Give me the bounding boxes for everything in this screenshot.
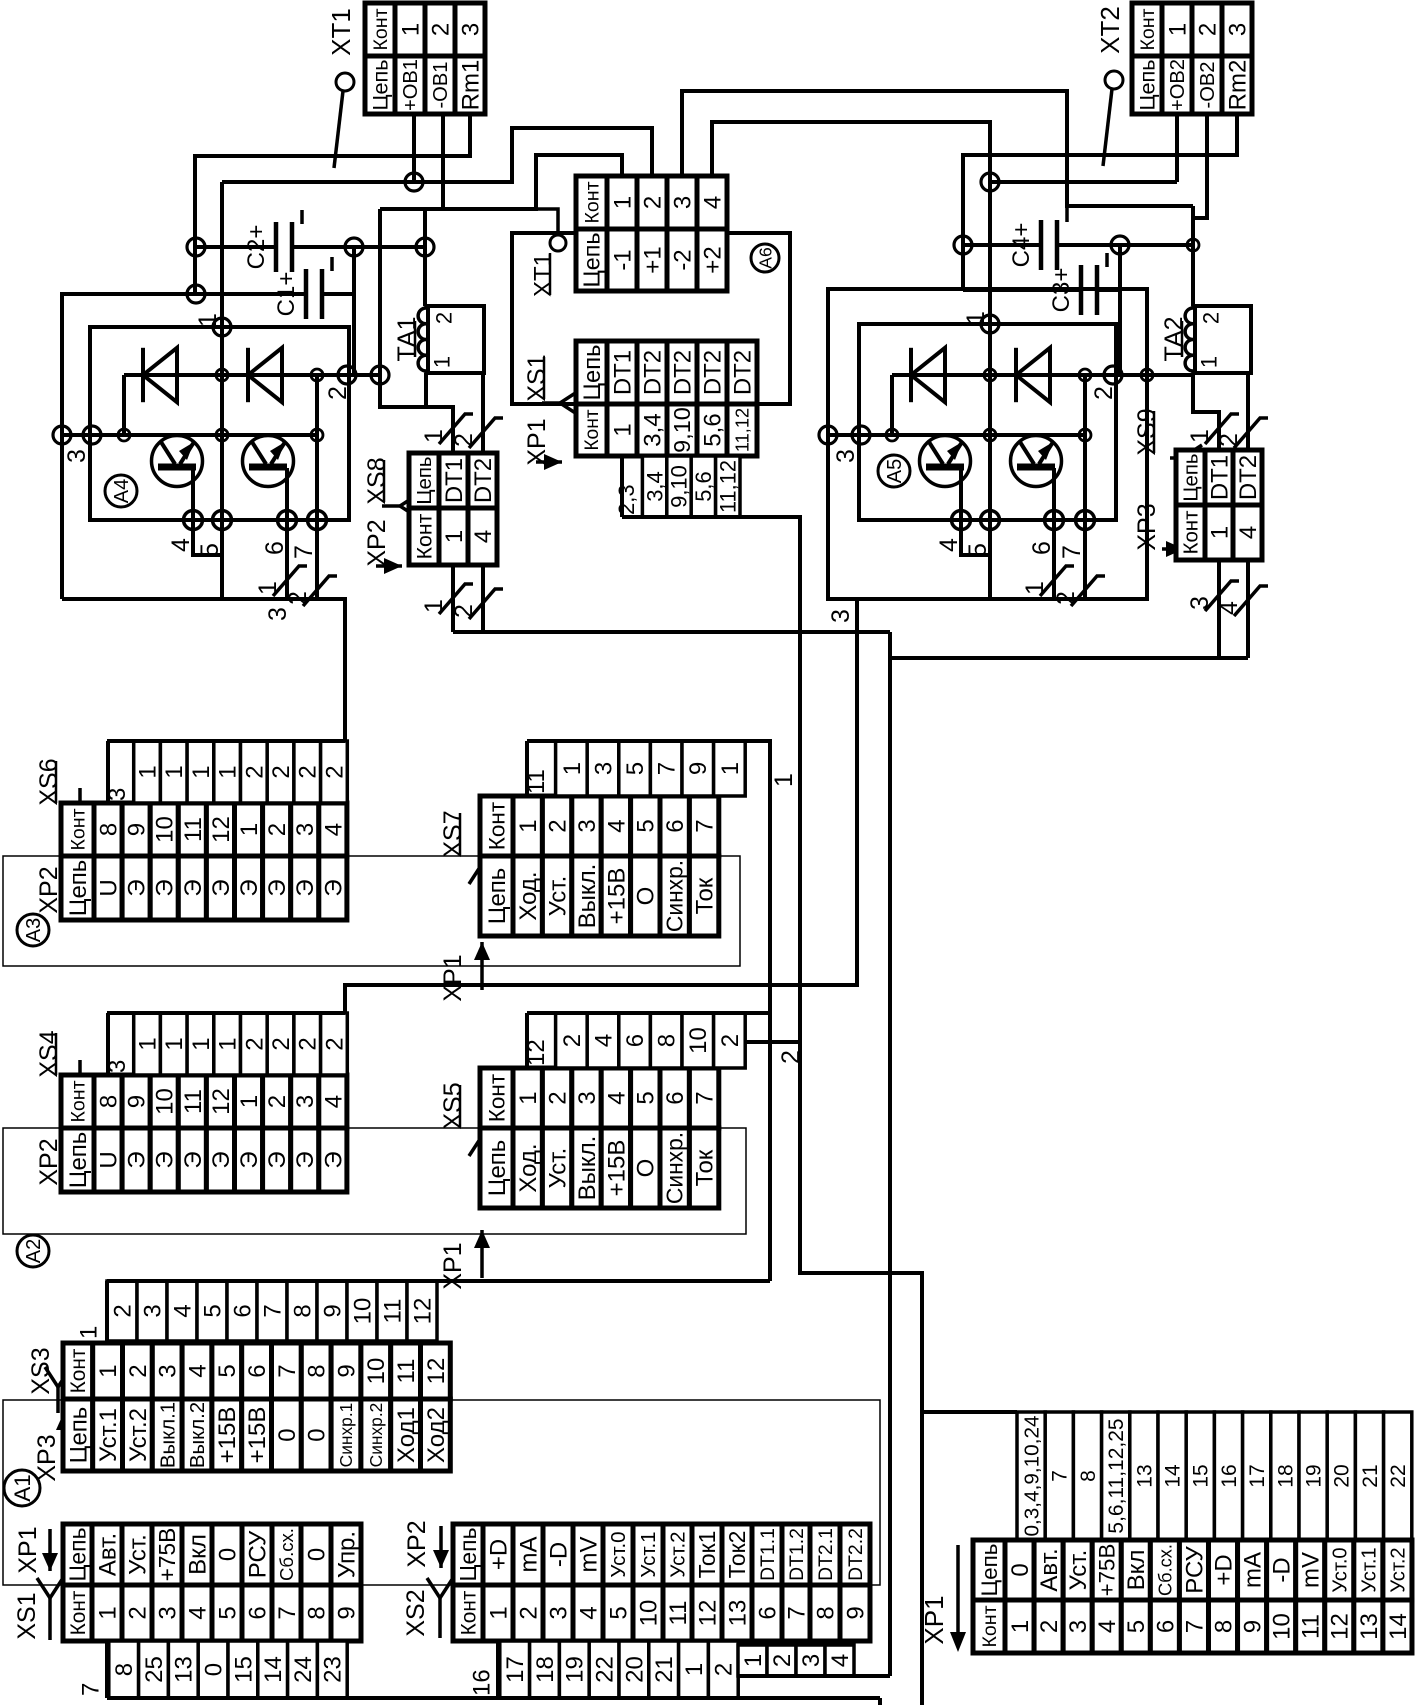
svg-text:ХТ1: ХТ1 — [529, 253, 556, 297]
wire XS4 pin8 stub — [106, 1013, 110, 1075]
junction C1 plus rail — [187, 285, 205, 303]
pin 7 of A4 — [308, 511, 327, 530]
svg-text:4: 4 — [699, 196, 726, 209]
wire XS2 pin1 stub — [496, 1641, 500, 1698]
svg-text:1: 1 — [236, 1095, 263, 1108]
svg-text:3: 3 — [63, 449, 91, 463]
junction A5 pin1 — [981, 315, 999, 333]
svg-text:Э: Э — [152, 879, 179, 896]
transistor VT2 of A4 — [243, 436, 294, 487]
junction A5 diode rail right — [1079, 369, 1091, 381]
svg-text:Синхр.1: Синхр.1 — [336, 1403, 356, 1468]
svg-text:+15В: +15В — [603, 868, 630, 925]
svg-text:11: 11 — [665, 1601, 692, 1626]
svg-text:1: 1 — [95, 1364, 122, 1377]
pin 4 of A4 — [184, 511, 203, 530]
svg-text:3: 3 — [1186, 596, 1214, 610]
connector label XS8 — [363, 457, 391, 504]
svg-text:РСУ: РСУ — [1181, 1545, 1208, 1593]
svg-text:6: 6 — [754, 1606, 781, 1619]
svg-text:1: 1 — [681, 1663, 708, 1676]
trunk label 1 — [770, 773, 798, 787]
svg-text:9: 9 — [1240, 1620, 1267, 1633]
wire A4 pin7 branch — [315, 375, 319, 520]
svg-text:Вкл: Вкл — [184, 1534, 211, 1575]
svg-text:Конт: Конт — [67, 1080, 89, 1122]
svg-text:Э: Э — [292, 1151, 319, 1168]
svg-text:5,6,11,12,25: 5,6,11,12,25 — [1105, 1418, 1128, 1533]
pin label 7 of A4 — [290, 545, 318, 559]
svg-text:Э: Э — [264, 879, 291, 896]
svg-text:1: 1 — [188, 1037, 215, 1050]
svg-text:DT2.2: DT2.2 — [845, 1528, 867, 1581]
pin 4 of A5 — [952, 511, 971, 530]
svg-text:1: 1 — [236, 823, 263, 836]
svg-text:20: 20 — [1331, 1464, 1354, 1487]
svg-text:19: 19 — [562, 1656, 589, 1683]
svg-text:+D: +D — [485, 1539, 512, 1570]
wire bus to XP1 connector — [922, 1410, 1017, 1414]
svg-text:11: 11 — [180, 817, 207, 842]
wire trunk 2 from XS5 — [745, 1040, 800, 1044]
connector label XS9 — [1133, 408, 1161, 455]
connector label XS2 of A1 — [402, 1589, 430, 1636]
svg-text:5: 5 — [214, 1606, 241, 1619]
svg-text:Цепь: Цепь — [455, 1527, 481, 1581]
svg-text:2: 2 — [777, 1050, 805, 1064]
svg-text:2: 2 — [124, 1606, 151, 1619]
connector table XP1/XS1 of A1 — [63, 1524, 361, 1641]
bus above XS3 — [107, 1279, 770, 1283]
pin 7 of A5 — [1076, 511, 1095, 530]
pin label 2 of A4 — [324, 386, 352, 400]
svg-text:Ток1: Ток1 — [694, 1531, 720, 1579]
svg-text:3: 3 — [545, 1606, 572, 1619]
junction TA1 feed on C2 rail — [416, 238, 434, 256]
wire A5 pin6 down — [1052, 520, 1056, 599]
svg-text:1: 1 — [215, 765, 242, 778]
svg-text:7: 7 — [290, 545, 318, 559]
svg-text:Э: Э — [180, 1151, 207, 1168]
pin 6 of A4 — [278, 511, 297, 530]
svg-text:+15В: +15В — [214, 1407, 241, 1464]
svg-text:12: 12 — [208, 816, 235, 843]
svg-text:Синхр.: Синхр. — [662, 860, 688, 932]
wire number boxes below A6 XP1 — [614, 456, 741, 517]
svg-text:2: 2 — [109, 1304, 136, 1317]
svg-text:5: 5 — [633, 819, 660, 832]
svg-text:Э: Э — [208, 1151, 235, 1168]
svg-text:Rm1: Rm1 — [457, 60, 484, 111]
svg-text:mA: mA — [1240, 1552, 1267, 1588]
connector label XP1 external — [919, 1595, 949, 1644]
svg-text:ХР3: ХР3 — [1133, 503, 1161, 550]
wire TA2 secondary common loop — [1193, 373, 1219, 450]
connector table XS7/XP1 — [480, 796, 719, 936]
svg-text:1: 1 — [397, 23, 424, 36]
svg-text:11,12: 11,12 — [731, 408, 752, 452]
wire A4 pin7 down — [315, 520, 319, 599]
svg-text:Уст.1: Уст.1 — [1358, 1547, 1380, 1592]
connector label XP2 of XS8 — [376, 558, 402, 574]
connector label XP3 of XS9 — [1162, 541, 1184, 557]
wire number boxes above XS5 — [523, 1013, 745, 1068]
junction rail3 b — [216, 429, 228, 441]
svg-text:Цепь: Цепь — [65, 1407, 92, 1464]
svg-text:8: 8 — [654, 1034, 681, 1047]
wire XS5 pin1 stub — [525, 1013, 529, 1068]
connector label XS7 — [439, 810, 467, 857]
terminal XT2 symbol — [1095, 6, 1125, 54]
svg-text:C4+: C4+ — [1008, 223, 1035, 268]
svg-text:Уст.2: Уст.2 — [667, 1531, 690, 1577]
svg-text:11: 11 — [393, 1359, 420, 1384]
svg-text:А4: А4 — [111, 479, 133, 503]
connector label XS1 of A6 — [523, 354, 551, 401]
svg-text:+2: +2 — [699, 246, 726, 273]
svg-text:17: 17 — [1246, 1464, 1269, 1487]
svg-text:ХТ2: ХТ2 — [1095, 6, 1125, 54]
connector label XP1 of A6 — [523, 418, 551, 465]
svg-text:8: 8 — [289, 1304, 316, 1317]
wire A6 -2 up and across — [682, 91, 1193, 206]
svg-text:5,6: 5,6 — [699, 413, 726, 446]
svg-text:Уст.0: Уст.0 — [1329, 1547, 1351, 1592]
group mark 1 above XS8 — [420, 414, 473, 444]
block A3 rectangle — [3, 856, 740, 966]
svg-text:Ход.: Ход. — [515, 1143, 542, 1192]
block A5 rectangle — [859, 324, 1116, 520]
connector table XT1 — [365, 3, 485, 114]
svg-text:-D: -D — [1269, 1557, 1296, 1582]
TA2 pin 1 label — [1197, 356, 1222, 368]
svg-text:Выкл.2: Выкл.2 — [187, 1402, 209, 1468]
bus DT2 to XS9 — [890, 656, 1248, 660]
junction rail3 a — [118, 429, 130, 441]
junction TA2 feed — [1187, 239, 1199, 251]
svg-text:4: 4 — [167, 538, 195, 552]
svg-text:2: 2 — [295, 765, 322, 778]
wire XP1 trunk down edge — [920, 1412, 924, 1705]
svg-text:0: 0 — [274, 1428, 301, 1441]
svg-text:Ток2: Ток2 — [724, 1531, 750, 1579]
wire net +OB2: XT2.1 to A5 — [1175, 114, 1179, 182]
svg-text:16: 16 — [468, 1669, 495, 1696]
svg-text:1: 1 — [194, 313, 222, 327]
svg-text:11: 11 — [180, 1089, 207, 1114]
wire net -OB1: XT1.2, TA1, A6 -1 — [380, 155, 622, 209]
svg-text:13: 13 — [724, 1600, 751, 1627]
svg-text:0: 0 — [201, 1663, 228, 1676]
svg-text:Ход.: Ход. — [515, 871, 542, 920]
svg-text:4: 4 — [320, 823, 347, 836]
svg-text:8: 8 — [303, 1606, 330, 1619]
svg-text:А3: А3 — [23, 918, 45, 942]
wire number boxes DT below XS2 — [738, 1645, 854, 1676]
svg-text:7: 7 — [692, 1091, 719, 1104]
svg-text:ХР2: ХР2 — [403, 1520, 431, 1567]
wire A5 pin4-pin5 strap — [961, 520, 990, 555]
wire A5 base rail pin3 — [828, 433, 1085, 437]
connector label XS1 of A1 — [13, 1592, 41, 1639]
svg-text:mV: mV — [1298, 1552, 1325, 1588]
capacitor C2 — [243, 210, 302, 272]
wire net Rm1: XT1.3 to C-rail and block A4 — [62, 114, 470, 599]
svg-text:4: 4 — [1235, 526, 1262, 539]
svg-text:Уст.: Уст. — [545, 1148, 572, 1189]
svg-text:3: 3 — [1224, 23, 1251, 36]
wire XS9 pin4 down — [1246, 560, 1250, 658]
svg-text:6: 6 — [622, 1034, 649, 1047]
svg-text:2: 2 — [295, 1037, 322, 1050]
svg-text:2: 2 — [1215, 433, 1243, 447]
svg-text:6: 6 — [244, 1606, 271, 1619]
svg-text:Ход1: Ход1 — [393, 1407, 420, 1463]
connector table XS3/XP3 — [63, 1343, 450, 1471]
pin label 6 of A4 — [261, 541, 289, 555]
diode VD1 of A4 — [143, 348, 177, 402]
capacitor C4 rail — [963, 243, 1041, 247]
svg-text:Конт: Конт — [979, 1605, 1001, 1647]
svg-text:4: 4 — [827, 1654, 854, 1667]
connector label XS4 — [35, 1030, 63, 1077]
wire C1/C2 minus link — [352, 247, 356, 375]
svg-text:9,10: 9,10 — [667, 465, 692, 508]
group mark 1 on A4 pin6 wire — [254, 566, 307, 596]
svg-text:23: 23 — [320, 1656, 347, 1683]
wire A5 diode branch — [890, 375, 894, 435]
capacitor C2 rail — [196, 245, 276, 249]
svg-text:6: 6 — [1152, 1620, 1179, 1633]
svg-text:3: 3 — [669, 196, 696, 209]
svg-text:C1+: C1+ — [273, 272, 300, 317]
svg-text:U: U — [95, 879, 122, 896]
svg-text:Ход2: Ход2 — [423, 1407, 450, 1463]
svg-text:DT1: DT1 — [609, 350, 636, 395]
bus DT boxes to vertical — [738, 1674, 890, 1678]
svg-text:Цепь: Цепь — [65, 860, 92, 917]
wire net -OB2: XT2.2 to TA2 — [1193, 114, 1207, 218]
svg-text:3: 3 — [292, 823, 319, 836]
svg-text:4: 4 — [184, 1606, 211, 1619]
svg-text:2: 2 — [711, 1663, 738, 1676]
svg-text:18: 18 — [532, 1656, 559, 1683]
wire A5 pin7 branch — [1083, 375, 1087, 520]
wire XS7 pin1 stub — [525, 741, 529, 796]
svg-text:13: 13 — [1356, 1613, 1383, 1640]
svg-text:Авт.: Авт. — [1036, 1548, 1063, 1591]
svg-text:12: 12 — [423, 1358, 450, 1385]
svg-text:ТА1: ТА1 — [393, 316, 421, 361]
pin label 6 of A5 — [1028, 541, 1056, 555]
svg-text:7: 7 — [274, 1606, 301, 1619]
wire number boxes above XP1 — [1017, 1412, 1412, 1540]
connector table XT1 of A6 — [576, 176, 727, 291]
wire A5 pin5 down to bus — [988, 520, 992, 599]
svg-text:2: 2 — [1036, 1620, 1063, 1633]
svg-text:2: 2 — [241, 765, 268, 778]
svg-text:1: 1 — [134, 1037, 161, 1050]
bus above XS5 — [527, 1011, 745, 1015]
connector table XS9/XP3 — [1176, 450, 1262, 560]
svg-text:3: 3 — [574, 819, 601, 832]
svg-text:Конт: Конт — [67, 1590, 90, 1635]
svg-text:10: 10 — [363, 1358, 390, 1385]
wire XS1 pin1 stub — [105, 1641, 109, 1698]
svg-text:1: 1 — [485, 1606, 512, 1619]
svg-text:8: 8 — [95, 1095, 122, 1108]
wire VT2 base lead — [285, 468, 289, 520]
wire VT3 base lead — [959, 468, 963, 520]
svg-text:Конт: Конт — [582, 409, 603, 450]
svg-text:9: 9 — [333, 1606, 360, 1619]
svg-text:2: 2 — [268, 765, 295, 778]
svg-text:2: 2 — [241, 1037, 268, 1050]
transformer TA2 winding — [1185, 308, 1193, 371]
wire XS8 pin1 down — [451, 565, 455, 632]
svg-text:8: 8 — [1077, 1470, 1100, 1482]
svg-text:3: 3 — [590, 762, 617, 775]
junction diode rail right — [311, 369, 323, 381]
svg-text:mA: mA — [515, 1537, 542, 1573]
svg-text:Уст.0: Уст.0 — [607, 1531, 630, 1577]
wire TA1 coil bottom drop — [424, 373, 428, 407]
junction C4 left — [954, 236, 972, 254]
svg-text:DT1.2: DT1.2 — [786, 1528, 808, 1581]
svg-text:3: 3 — [1065, 1620, 1092, 1633]
svg-text:4: 4 — [1215, 601, 1243, 615]
svg-text:7: 7 — [692, 819, 719, 832]
svg-text:-2: -2 — [669, 249, 696, 270]
svg-text:7: 7 — [274, 1364, 301, 1377]
svg-text:0: 0 — [1007, 1563, 1034, 1576]
pin label 3 of A4 — [63, 449, 91, 463]
connector label XP1 of A2 — [439, 1242, 467, 1289]
svg-text:Уст.: Уст. — [1065, 1550, 1092, 1591]
svg-text:1: 1 — [962, 311, 990, 325]
svg-text:6: 6 — [662, 819, 689, 832]
transformer TA2 label — [1160, 316, 1188, 361]
svg-text:ХР1: ХР1 — [439, 954, 467, 1001]
svg-text:DT2: DT2 — [699, 350, 726, 395]
svg-text:-D: -D — [545, 1542, 572, 1567]
svg-text:Ток: Ток — [692, 877, 719, 914]
connector label XS3 — [27, 1347, 55, 1394]
svg-text:Конт: Конт — [412, 513, 436, 559]
svg-text:10: 10 — [152, 1088, 179, 1115]
terminal XT1 inside A6 — [536, 209, 558, 235]
svg-text:DT2: DT2 — [470, 458, 497, 503]
connector label XP2 of A3 — [35, 866, 63, 913]
group mark 1 on A5 pin6 wire — [1021, 566, 1074, 596]
junction A5 feed — [981, 173, 999, 191]
group mark 2 below XS8 — [450, 589, 503, 619]
svg-text:Сб.сх.: Сб.сх. — [1154, 1544, 1175, 1596]
svg-text:13: 13 — [1133, 1464, 1156, 1487]
svg-text:4: 4 — [935, 538, 963, 552]
svg-text:Уст.: Уст. — [124, 1534, 151, 1575]
wire trunk 1 from XS7 to XS3 — [745, 741, 770, 1281]
svg-text:3: 3 — [154, 1606, 181, 1619]
svg-text:1: 1 — [75, 1326, 102, 1339]
svg-text:8: 8 — [95, 823, 122, 836]
diode VD4 of A5 — [1016, 348, 1050, 402]
junction A4 pin3 — [83, 426, 101, 444]
svg-text:1: 1 — [161, 1037, 188, 1050]
svg-text:12: 12 — [409, 1298, 436, 1325]
group mark 2 on A5 pin7 wire — [1052, 576, 1105, 606]
svg-text:Сб.сх.: Сб.сх. — [276, 1528, 297, 1581]
svg-text:XS1: XS1 — [523, 354, 551, 401]
svg-text:Конт: Конт — [484, 802, 509, 850]
svg-text:Конт: Конт — [1137, 8, 1159, 50]
wire A6 XP1 pin1 stub — [620, 456, 624, 517]
svg-text:C3+: C3+ — [1048, 268, 1075, 313]
svg-text:1: 1 — [1021, 581, 1049, 595]
svg-text:2: 2 — [545, 819, 572, 832]
svg-text:4: 4 — [184, 1364, 211, 1377]
svg-text:DT1.1: DT1.1 — [757, 1528, 779, 1581]
pin 5 of A5 — [981, 511, 1000, 530]
svg-text:1: 1 — [215, 1037, 242, 1050]
svg-text:6: 6 — [1028, 541, 1056, 555]
svg-text:3,4: 3,4 — [642, 471, 667, 502]
block A3 designator — [17, 914, 49, 946]
svg-text:21: 21 — [651, 1656, 678, 1683]
svg-text:О: О — [633, 1159, 660, 1178]
wire A5 central pin1-pin5 — [988, 182, 992, 324]
group mark 2 on A4 pin7 wire — [284, 576, 337, 606]
group mark 4 below XS9 — [1215, 586, 1268, 616]
pin label 1 of A5 — [962, 311, 990, 325]
svg-text:mV: mV — [575, 1537, 602, 1573]
svg-text:Э: Э — [124, 879, 151, 896]
pin 6 of A5 — [1045, 511, 1064, 530]
svg-text:1: 1 — [1206, 526, 1233, 539]
junction C4-C3 link — [1111, 236, 1129, 254]
svg-text:18: 18 — [1274, 1464, 1297, 1487]
junction A4 pin1 — [213, 318, 231, 336]
svg-text:10: 10 — [152, 816, 179, 843]
group mark 2 above XS9 — [1215, 418, 1268, 448]
connector table XS6/XP2 — [61, 803, 347, 920]
svg-text:1: 1 — [609, 196, 636, 209]
pin label 4 of A5 — [935, 538, 963, 552]
svg-text:12: 12 — [208, 1088, 235, 1115]
connector table XS5/XP1 — [480, 1068, 719, 1208]
svg-text:DT2.1: DT2.1 — [815, 1528, 837, 1581]
svg-text:Цепь: Цепь — [65, 1527, 91, 1581]
svg-text:11: 11 — [1298, 1614, 1325, 1639]
junction A4 pin2 — [338, 366, 356, 384]
svg-text:14: 14 — [1385, 1613, 1412, 1640]
wire net 3 from A5 to XS4 bus — [345, 599, 857, 1013]
trunk label 2 — [777, 1050, 805, 1064]
wire number boxes above XS3 — [75, 1281, 437, 1341]
transformer TA2 box — [1195, 306, 1251, 373]
svg-text:Уст.1: Уст.1 — [637, 1531, 660, 1577]
svg-text:6: 6 — [261, 541, 289, 555]
svg-text:1: 1 — [1186, 429, 1214, 443]
svg-text:1: 1 — [161, 765, 188, 778]
svg-text:4: 4 — [590, 1034, 617, 1047]
block A6 designator — [751, 244, 779, 272]
block A5 outer boundary — [828, 289, 1147, 599]
junction diode rail center — [216, 369, 228, 381]
bus above XS7 — [527, 739, 745, 743]
svg-text:+15В: +15В — [244, 1407, 271, 1464]
svg-text:DT2: DT2 — [1235, 455, 1262, 500]
